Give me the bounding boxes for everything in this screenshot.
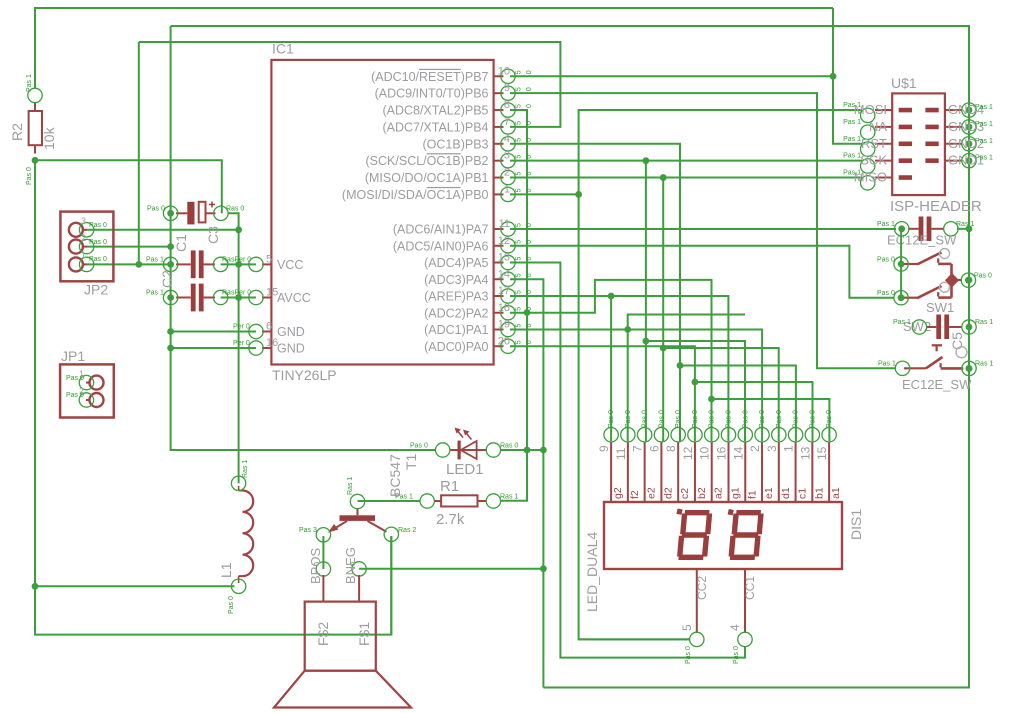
svg-text:BPOS: BPOS — [308, 548, 323, 584]
wire PA2 branch to col14 — [712, 399, 830, 441]
wire stub JP2 pad3 riser — [138, 42, 140, 264]
pin VCC number 5 — [262, 263, 271, 265]
svg-text:5: 5 — [516, 290, 523, 294]
svg-text:EC12E_SW: EC12E_SW — [902, 377, 972, 392]
svg-text:(ADC1)PA1: (ADC1)PA1 — [424, 323, 488, 337]
junction PA3 to col1 — [608, 293, 615, 300]
pin display e1 number 2 — [761, 442, 763, 502]
junction GND bus C4 — [966, 225, 973, 232]
svg-text:7: 7 — [631, 445, 645, 452]
svg-text:L1: L1 — [218, 562, 234, 578]
svg-text:a1: a1 — [830, 487, 842, 499]
svg-text:R2: R2 — [9, 123, 25, 141]
junction VCC JP2 pad1 — [235, 226, 242, 233]
pin (SCK/SCL/OC1B)PB2 number 3 — [494, 160, 504, 162]
svg-text:EC12E_SW: EC12E_SW — [887, 233, 957, 248]
junction PB7 reset — [830, 73, 837, 80]
svg-text:Pas 1: Pas 1 — [843, 153, 861, 160]
pin (ADC9/INT0/T0)PB6 number 9 — [494, 92, 504, 94]
wire PB1 column — [662, 178, 664, 441]
speaker F$1 F$2 body — [305, 602, 376, 671]
display DIS1 body — [604, 502, 842, 569]
wire base to R1 — [358, 500, 421, 502]
pin (OC1B)PB3 number 4 — [494, 143, 504, 145]
svg-text:(ADC6/AIN1)PA7: (ADC6/AIN1)PA7 — [393, 223, 489, 237]
pin circle L1 top — [231, 476, 245, 490]
pin (MISO/DO/OC1A)PB1 number 2 — [494, 177, 504, 179]
pin display c1 number 1 — [795, 442, 797, 502]
junction PA2 branch — [708, 396, 715, 403]
svg-text:17: 17 — [498, 285, 510, 297]
svg-text:d1: d1 — [780, 487, 792, 499]
junction GND bus pin G3 — [966, 124, 973, 131]
capacitor C3 — [187, 202, 194, 225]
pin circle T1 base — [350, 494, 364, 508]
junction encoder common diamond — [945, 273, 959, 287]
svg-text:Pas 1: Pas 1 — [843, 136, 861, 143]
pin circle SW B — [894, 291, 908, 305]
svg-text:c1: c1 — [797, 488, 809, 499]
svg-text:5: 5 — [516, 257, 523, 261]
svg-text:0: 0 — [526, 223, 533, 227]
svg-text:Pas 1: Pas 1 — [877, 221, 895, 228]
connector JP1 — [60, 364, 114, 417]
pin circle R1 left — [420, 494, 434, 508]
svg-text:13: 13 — [498, 252, 510, 264]
svg-text:15: 15 — [266, 287, 278, 299]
svg-text:2: 2 — [504, 167, 510, 179]
svg-text:5: 5 — [516, 240, 523, 244]
svg-text:AVCC: AVCC — [277, 291, 311, 305]
wire PA4 column lower — [542, 450, 544, 688]
pin circle R1 right — [486, 494, 500, 508]
wire PB3 branch to col12 — [680, 366, 796, 442]
svg-text:C1: C1 — [173, 234, 189, 252]
pin circle C5 right — [962, 320, 976, 334]
display digit 2 decimal point — [728, 509, 734, 515]
wire JP2 pad3 to GND — [87, 263, 171, 265]
svg-text:Pas 0: Pas 0 — [66, 375, 84, 382]
svg-text:3: 3 — [81, 216, 86, 226]
svg-text:15: 15 — [815, 446, 829, 460]
wire AVCC row — [221, 297, 256, 299]
svg-text:Pas 1: Pas 1 — [26, 74, 33, 92]
wire PA1 row — [510, 330, 762, 442]
junction GND at C1 — [167, 294, 174, 301]
junction GND at JP2 pad2 — [167, 243, 174, 250]
wire PB0 stub — [510, 193, 579, 195]
svg-text:U$1: U$1 — [891, 75, 917, 91]
svg-text:Ras 1: Ras 1 — [975, 319, 993, 326]
svg-text:4: 4 — [728, 624, 742, 631]
junction GND bus C5 — [966, 324, 973, 331]
svg-text:Pas 0: Pas 0 — [410, 443, 428, 450]
svg-text:0: 0 — [526, 87, 533, 91]
svg-text:Pas 0: Pas 0 — [733, 646, 740, 664]
junction GND at GND pin 6 — [167, 328, 174, 335]
svg-text:0: 0 — [526, 155, 533, 159]
capacitor C5 — [936, 315, 941, 340]
svg-text:Pas 1: Pas 1 — [975, 155, 993, 162]
pin circle C3 left — [163, 206, 177, 220]
switch SW contact B — [903, 297, 917, 299]
wire PA3 column1 — [610, 296, 612, 441]
svg-text:(AREF)PA3: (AREF)PA3 — [424, 290, 488, 304]
pin (ADC10/RESET)PB7 number 10 — [494, 75, 504, 77]
wire GND bus right — [543, 26, 969, 688]
wire MOSI net — [579, 110, 862, 639]
svg-text:0: 0 — [526, 273, 533, 277]
svg-text:0: 0 — [526, 188, 533, 192]
svg-text:Pas 0: Pas 0 — [26, 167, 33, 185]
svg-text:CC1: CC1 — [743, 576, 757, 600]
svg-text:e2: e2 — [646, 487, 658, 499]
svg-text:DIS1: DIS1 — [848, 509, 864, 540]
svg-text:8: 8 — [664, 445, 678, 452]
svg-text:BNEG: BNEG — [343, 547, 358, 584]
wire LED right link — [501, 449, 544, 451]
pin ISP MISO — [875, 177, 892, 179]
pin ISP GND1 — [925, 158, 938, 163]
svg-text:(SCK/SCL/OC1B)PB2: (SCK/SCL/OC1B)PB2 — [366, 154, 489, 168]
wire PB6 to encoder switch — [510, 93, 895, 368]
svg-text:Pas 1: Pas 1 — [146, 290, 164, 297]
svg-text:0: 0 — [526, 257, 533, 261]
svg-text:(ADC4)PA5: (ADC4)PA5 — [424, 256, 488, 270]
wire reset rail to RST pin — [833, 8, 862, 144]
svg-text:Ras 1: Ras 1 — [956, 221, 974, 228]
wire emitter to BPOS — [322, 536, 324, 569]
junction GND bus pin G1 — [966, 157, 973, 164]
pin (ADC5/AIN0)PA6 number 12 — [494, 245, 504, 247]
svg-text:Pas 0: Pas 0 — [793, 410, 800, 428]
svg-text:20: 20 — [498, 335, 510, 347]
svg-text:(MOSI/DI/SDA/OC1A)PB0: (MOSI/DI/SDA/OC1A)PB0 — [342, 188, 489, 202]
svg-text:(OC1B)PB3: (OC1B)PB3 — [423, 137, 489, 151]
junction GND bus encoder common — [966, 277, 973, 284]
svg-text:0: 0 — [526, 70, 533, 74]
wire collector down — [390, 536, 392, 635]
svg-text:8: 8 — [504, 99, 510, 111]
wire R2 bottom to C3 plus — [35, 160, 222, 213]
pin ISP SCK — [875, 160, 892, 162]
svg-text:Pas 1: Pas 1 — [146, 257, 164, 264]
svg-text:1: 1 — [504, 183, 510, 195]
svg-text:Pas 0: Pas 0 — [759, 410, 766, 428]
svg-text:(ADC0)PA0: (ADC0)PA0 — [424, 340, 488, 354]
pin GND number 16 — [262, 347, 271, 349]
junction PB2 to display — [643, 157, 650, 164]
svg-text:e1: e1 — [763, 487, 775, 499]
pin display d2 number 6 — [660, 442, 662, 502]
svg-text:(MISO/DO/OC1A)PB1: (MISO/DO/OC1A)PB1 — [365, 171, 489, 185]
pin display d1 number 3 — [778, 442, 780, 502]
svg-text:JP1: JP1 — [61, 348, 85, 364]
wire PB1 MISO row — [510, 177, 862, 179]
svg-text:(ADC2)PA2: (ADC2)PA2 — [424, 306, 488, 320]
svg-text:Pas 0: Pas 0 — [642, 410, 649, 428]
junction PB1 to display — [660, 174, 667, 181]
junction GND bus pin G2 — [966, 140, 973, 147]
transistor T1 — [340, 515, 376, 521]
wire CC2 feed — [579, 638, 690, 640]
svg-text:10k: 10k — [41, 126, 57, 150]
pin circle R2 top — [28, 88, 42, 102]
junction PB5 at PA2 row — [524, 309, 531, 316]
pin circle C2 left — [163, 257, 177, 271]
junction LED right at PA4 column — [540, 447, 547, 454]
svg-text:Pas 0: Pas 0 — [89, 239, 107, 246]
switch SW3 actuator — [932, 344, 942, 346]
pin display f2 number 11 — [627, 442, 629, 502]
svg-text:(ADC3)PA4: (ADC3)PA4 — [424, 273, 488, 287]
svg-text:1: 1 — [81, 250, 86, 260]
svg-text:JP2: JP2 — [84, 282, 108, 298]
svg-text:Pas 0: Pas 0 — [228, 596, 235, 614]
pin circle C1 left — [163, 290, 177, 304]
pin circle encoder common — [961, 273, 975, 287]
svg-text:0: 0 — [526, 172, 533, 176]
pin circle LED1 anode — [436, 443, 450, 457]
svg-text:Ras 1: Ras 1 — [347, 477, 354, 495]
svg-text:LED1: LED1 — [446, 461, 484, 478]
svg-text:Pas 0: Pas 0 — [147, 206, 165, 213]
pin circle T1 emitter — [316, 528, 330, 542]
junction MOSI at PB0 — [575, 191, 582, 198]
wire net GND vertical — [171, 26, 436, 450]
svg-text:CC2: CC2 — [695, 576, 709, 600]
svg-text:Per 0: Per 0 — [233, 340, 250, 347]
resistor R1 — [441, 495, 477, 506]
capacitor C1 — [191, 284, 196, 312]
junction PB3 branch — [677, 362, 684, 369]
svg-text:5: 5 — [516, 223, 523, 227]
pin display a1 number 15 — [828, 442, 830, 502]
svg-text:13: 13 — [798, 446, 812, 460]
svg-text:1: 1 — [782, 445, 796, 452]
svg-text:5: 5 — [516, 155, 523, 159]
svg-text:3: 3 — [765, 445, 779, 452]
svg-text:RasPer 0: RasPer 0 — [222, 290, 251, 297]
svg-text:14: 14 — [731, 446, 745, 460]
junction GND at GND pin 16 — [167, 345, 174, 352]
svg-text:Pas 1: Pas 1 — [843, 170, 861, 177]
svg-text:11: 11 — [614, 447, 628, 460]
svg-text:c2: c2 — [679, 488, 691, 499]
svg-text:5: 5 — [680, 624, 694, 631]
wire net PB4 top rail — [139, 42, 561, 127]
svg-text:0: 0 — [526, 138, 533, 142]
wire PA6 to encoder — [510, 246, 894, 298]
svg-text:0: 0 — [526, 324, 533, 328]
pin circle C4 left — [895, 222, 909, 236]
pin ISP NA — [875, 126, 892, 128]
pin AVCC number 15 — [262, 297, 271, 299]
svg-text:5: 5 — [516, 70, 523, 74]
junction PB1 branch — [660, 345, 667, 352]
svg-text:Pas 1: Pas 1 — [893, 319, 911, 326]
wire col2 link — [628, 315, 745, 442]
display digit 1 — [679, 513, 710, 558]
svg-text:Pas 1: Pas 1 — [975, 138, 993, 145]
pin circle SW A — [894, 257, 908, 271]
svg-text:C3: C3 — [205, 226, 221, 244]
svg-text:g1: g1 — [729, 487, 741, 499]
pin (ADC1)PA1 number 19 — [494, 329, 504, 331]
pin ISP GND2 — [925, 142, 938, 147]
wire PA3 row — [510, 296, 728, 441]
svg-text:12: 12 — [498, 235, 510, 247]
svg-text:Pas 0: Pas 0 — [776, 410, 783, 428]
pin (ADC6/AIN1)PA7 number 11 — [494, 228, 504, 230]
svg-text:2.7k: 2.7k — [436, 511, 465, 528]
junction PB2 branch — [643, 338, 650, 345]
pin (MOSI/DI/SDA/OC1A)PB0 number 1 — [494, 193, 504, 195]
wire PA4 to LED and buzzer — [510, 279, 543, 450]
pin display g1 number 16 — [727, 442, 729, 502]
svg-text:RST: RST — [861, 136, 887, 151]
wire encoder common bar — [950, 264, 953, 298]
pin GND number 6 — [262, 331, 271, 333]
svg-text:5: 5 — [266, 253, 272, 265]
svg-text:a2: a2 — [713, 487, 725, 499]
svg-text:5: 5 — [516, 104, 523, 108]
junction GND bus pin G4 — [966, 107, 973, 114]
svg-text:(ADC7/XTAL1)PB4: (ADC7/XTAL1)PB4 — [382, 120, 488, 134]
svg-text:TINY26LP: TINY26LP — [272, 367, 337, 383]
node BPOS — [316, 562, 330, 576]
wire JP2 pad2 to GND — [87, 246, 171, 248]
pin display a2 number 10 — [711, 442, 713, 502]
svg-text:(ADC10/RESET)PB7: (ADC10/RESET)PB7 — [371, 70, 488, 84]
svg-text:10: 10 — [498, 65, 510, 77]
pin (AREF)PA3 number 17 — [494, 295, 504, 297]
junction PA0 branch — [692, 379, 699, 386]
svg-text:Pas 0: Pas 0 — [826, 410, 833, 428]
pin display CC1 number 4 — [744, 569, 746, 633]
svg-text:Ras 2: Ras 2 — [398, 527, 416, 534]
svg-text:0: 0 — [526, 307, 533, 311]
svg-text:16: 16 — [266, 337, 278, 349]
node BNEG — [352, 562, 366, 576]
svg-text:Pas 1: Pas 1 — [878, 361, 896, 368]
wire PB1 branch to col11 — [663, 348, 779, 441]
svg-text:Pas 0: Pas 0 — [685, 646, 692, 664]
inductor L1 — [243, 491, 254, 577]
wire net GND top rail — [171, 26, 969, 110]
wire PB2 SCK row — [510, 160, 862, 162]
wire BNEG net — [359, 568, 543, 570]
svg-text:F$2: F$2 — [315, 622, 331, 646]
svg-text:RasPer 0: RasPer 0 — [222, 257, 251, 264]
pin circle SW3 right — [962, 361, 976, 375]
pin (ADC0)PA0 number 20 — [494, 345, 504, 347]
svg-text:Pas 0: Pas 0 — [809, 410, 816, 428]
wire PA7 to C4 — [510, 228, 896, 230]
svg-text:VCC: VCC — [277, 258, 303, 272]
svg-text:Pas 0: Pas 0 — [66, 392, 84, 399]
svg-text:T1: T1 — [403, 453, 419, 470]
svg-text:F$1: F$1 — [356, 622, 372, 646]
svg-text:5: 5 — [516, 172, 523, 176]
pin circle C2 right — [213, 257, 227, 271]
junction AVCC pin — [235, 294, 242, 301]
pin display f1 number 14 — [744, 442, 746, 502]
svg-text:5: 5 — [516, 307, 523, 311]
connector JP2 — [60, 212, 113, 282]
wire PB3 to display — [510, 144, 680, 441]
op-amp IC1 body — [271, 60, 493, 365]
svg-text:5: 5 — [516, 340, 523, 344]
LED LED1 — [450, 449, 487, 451]
svg-text:9: 9 — [504, 82, 510, 94]
svg-text:LED_DUAL4: LED_DUAL4 — [584, 532, 600, 612]
display digit 1 decimal point — [676, 509, 682, 515]
junction left rail at L1 bottom — [32, 583, 39, 590]
svg-text:0: 0 — [526, 340, 533, 344]
svg-text:SCK: SCK — [860, 153, 887, 168]
pin ISP RST — [875, 143, 892, 145]
svg-text:BC547: BC547 — [387, 454, 403, 497]
pin display b1 number 13 — [811, 442, 813, 502]
svg-text:14: 14 — [498, 268, 510, 280]
pin circle C3 right — [214, 206, 228, 220]
pin display c2 number 8 — [677, 442, 679, 502]
svg-text:5: 5 — [516, 138, 523, 142]
junction R2 bottom — [32, 157, 39, 164]
svg-text:(ADC8/XTAL2)PB5: (ADC8/XTAL2)PB5 — [382, 104, 488, 118]
wire PB2 branch to col9 — [646, 341, 745, 441]
svg-text:Pas 0: Pas 0 — [608, 410, 615, 428]
svg-text:9: 9 — [597, 445, 611, 452]
svg-text:11: 11 — [499, 218, 510, 230]
svg-text:SW1: SW1 — [926, 300, 954, 315]
pin display b2 number 12 — [694, 442, 696, 502]
svg-text:b1: b1 — [813, 487, 825, 499]
pin (ADC4)PA5 number 13 — [494, 262, 504, 264]
pin (ADC8/XTAL2)PB5 number 8 — [494, 109, 504, 111]
svg-text:Pas 1: Pas 1 — [975, 121, 993, 128]
wire PB5 vertical — [501, 110, 527, 501]
svg-text:g2: g2 — [612, 487, 624, 499]
svg-text:Pas 0: Pas 0 — [742, 410, 749, 428]
wire PA0 branch to col13 — [695, 382, 813, 441]
svg-text:5: 5 — [516, 87, 523, 91]
junction BNEG at PA4 column — [540, 565, 547, 572]
pin circle C5 left — [912, 320, 926, 334]
svg-text:6: 6 — [647, 445, 661, 452]
junction at JP2 pad3 riser — [135, 261, 142, 268]
svg-text:Pas 0: Pas 0 — [89, 256, 107, 263]
svg-text:Pas 3: Pas 3 — [299, 527, 317, 534]
svg-text:2: 2 — [748, 445, 762, 452]
wire GND pin 16 row — [171, 347, 256, 349]
svg-text:5: 5 — [516, 324, 523, 328]
wire PB7 to reset rail — [510, 75, 833, 77]
wire net VCC vertical — [228, 213, 239, 483]
svg-text:12: 12 — [681, 446, 695, 460]
svg-text:5: 5 — [516, 188, 523, 192]
pin circle LED1 cathode — [486, 443, 500, 457]
display digit 2 — [730, 513, 761, 558]
capacitor C4 — [919, 217, 924, 242]
svg-text:b2: b2 — [696, 487, 708, 499]
svg-text:Ras 1: Ras 1 — [242, 460, 249, 478]
pin circle L1 bottom — [231, 579, 245, 593]
wire PA5 to CC1 — [510, 263, 745, 658]
svg-text:Ras 1: Ras 1 — [975, 361, 993, 368]
svg-text:f2: f2 — [629, 490, 641, 499]
